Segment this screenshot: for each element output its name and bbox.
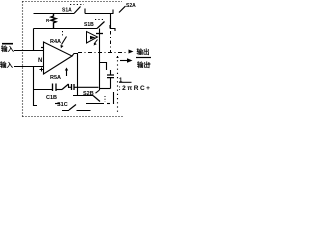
wire rail 1 top: [34, 13, 75, 15]
output terminal 2 border dot: [117, 57, 119, 59]
svg-text:输入: 输入: [1, 44, 15, 53]
svg-text::2πRC+: :2πRC+: [119, 85, 152, 92]
output wire 2: [120, 60, 127, 62]
feedback vertical wire: [77, 53, 79, 96]
capacitor C4 plates: [107, 75, 114, 78]
amplifier U2 output tick arrow: [94, 40, 98, 45]
output polarity plus: [148, 63, 151, 66]
control arrowhead top: [61, 45, 64, 48]
capacitor C3 plate: [96, 33, 103, 35]
op-amp noninverting plus mark: [40, 68, 44, 72]
svg-text:S1B: S1B: [84, 22, 94, 28]
amplifier U2 inner arrow: [90, 36, 96, 40]
wire lower branch: [73, 95, 93, 97]
wire bottom-right join: [100, 88, 111, 90]
control arrow into op-amp bottom: [66, 70, 68, 76]
wire bottom mid: [69, 86, 99, 88]
capacitor C4 leads: [110, 70, 112, 89]
dashed enclosure border left: [22, 2, 24, 117]
input wire 1: [14, 50, 44, 52]
wire bottom rail: [62, 110, 91, 112]
wire bottom network left: [34, 89, 53, 91]
output arrowhead 2: [127, 58, 133, 62]
svg-text:N: N: [38, 58, 42, 64]
wire rail join vertical: [110, 14, 112, 29]
lower vertical right: [113, 92, 115, 104]
lower shelf dash: [107, 103, 110, 105]
svg-text:R: R: [46, 18, 50, 23]
contact tick node: [112, 10, 114, 14]
gang dash-dot horizontal: [78, 52, 127, 54]
junction dots column: [104, 96, 106, 102]
amplifier U2 arrowhead: [94, 43, 97, 46]
svg-text:C1B: C1B: [46, 95, 57, 101]
svg-text:S2B: S2B: [83, 91, 94, 97]
svg-text:R4A: R4A: [50, 39, 61, 45]
switch S2A lever: [119, 6, 126, 13]
switch S1B gang dashes: [95, 19, 105, 21]
svg-text:输出: 输出: [137, 47, 150, 56]
switch S3 contact: [68, 84, 70, 88]
svg-text:输入: 输入: [0, 60, 14, 69]
dashed enclosure border right (partial): [117, 56, 119, 114]
svg-text:S2A: S2A: [126, 3, 136, 9]
wire rail 2: [34, 28, 98, 30]
switch S1A fixed contact: [84, 9, 86, 14]
switch S3 lever: [62, 84, 69, 90]
main vertical bus right: [99, 29, 101, 91]
wire lower shelf: [86, 103, 104, 105]
gang dash-dot vertical: [110, 31, 112, 52]
resistor R1 vertical between rails: [51, 14, 56, 29]
switch S1A gang dashes: [70, 4, 84, 6]
wire rail 2 stub: [110, 29, 115, 32]
formula fraction bar: [119, 81, 132, 83]
input wire 2: [14, 66, 44, 68]
svg-text:1: 1: [119, 78, 123, 84]
dashed enclosure border top: [23, 1, 123, 3]
switch S1A lever: [74, 7, 81, 14]
switch S1B lever: [97, 22, 105, 29]
capacitor C1B plates: [53, 84, 57, 92]
control arrowhead bottom: [65, 68, 68, 71]
output overline wire: [136, 57, 151, 59]
dashed enclosure border bottom: [23, 116, 125, 118]
bus bottom tick: [96, 90, 100, 93]
input terminal 1 bar: [2, 43, 13, 45]
gang dash vertical upper: [62, 31, 64, 36]
branch stub right: [100, 63, 107, 71]
svg-text:S1C: S1C: [57, 102, 68, 108]
wire bottom rail stub: [55, 103, 60, 105]
wire cap to switch: [57, 89, 63, 91]
switch S1C lever: [69, 105, 76, 111]
gang arrowhead right: [129, 50, 134, 54]
op-amp inverting input tick: [41, 47, 44, 49]
svg-text:R5A: R5A: [50, 75, 61, 81]
svg-text:输出: 输出: [137, 60, 150, 69]
op-amp output wire: [72, 54, 78, 57]
switch S2B lever: [93, 96, 100, 102]
wire rail 1 right: [85, 13, 114, 15]
RC network drop vertical: [33, 29, 35, 51]
control arrow into op-amp top: [62, 37, 67, 45]
svg-text:S1A: S1A: [62, 8, 72, 14]
op-amp U1 triangle: [44, 42, 73, 74]
switch S1B fixed contact: [109, 25, 111, 29]
capacitor C5 plates: [72, 84, 75, 90]
ground drop vertical: [34, 67, 38, 106]
amplifier U2 triangle: [87, 32, 98, 44]
